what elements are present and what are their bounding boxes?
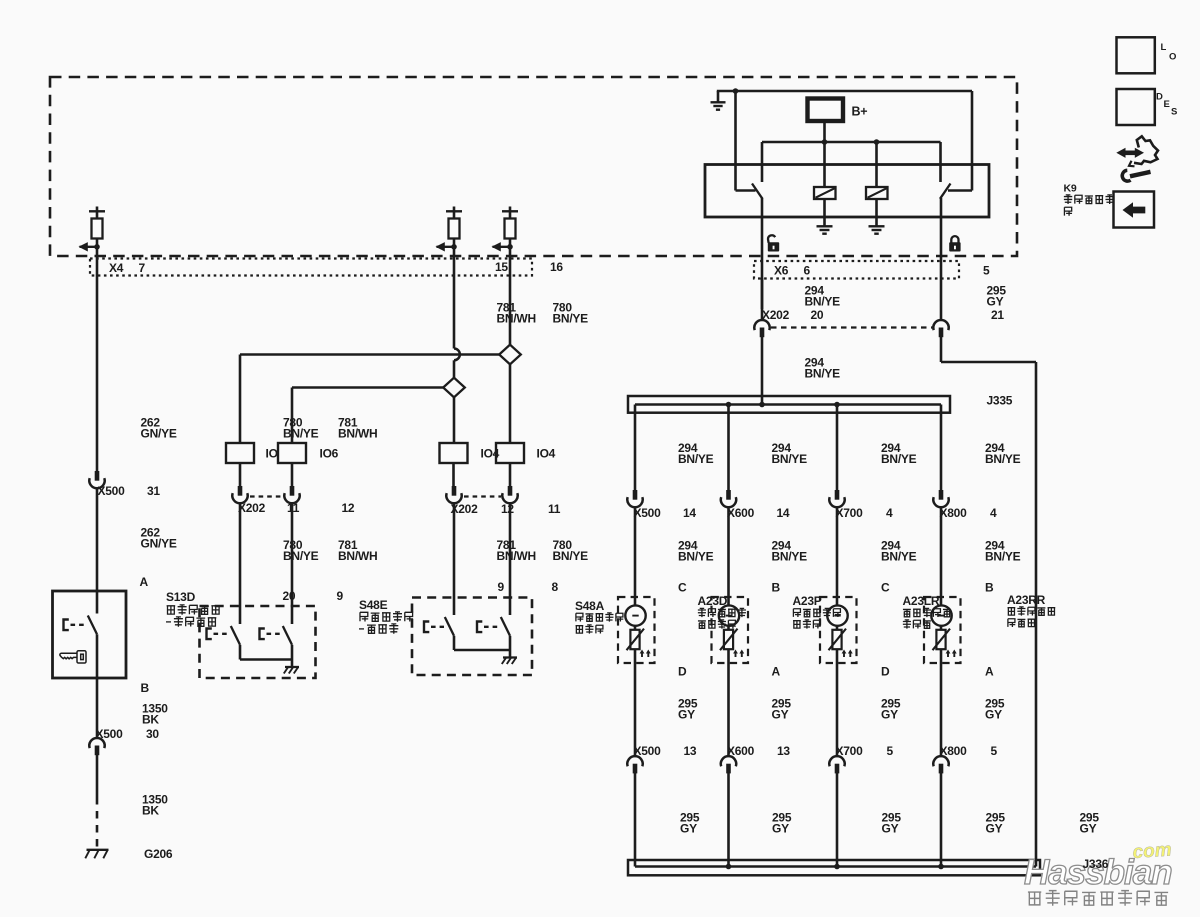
svg-text:BN/YE: BN/YE bbox=[881, 452, 917, 466]
switch blade right relay bbox=[940, 184, 951, 199]
wire 1350 BK lower bbox=[96, 755, 99, 797]
svg-text:BN/WH: BN/WH bbox=[497, 311, 536, 325]
label DES bbox=[1156, 92, 1177, 118]
svg-text:B: B bbox=[141, 681, 150, 695]
svg-text:GY: GY bbox=[680, 821, 697, 835]
wire key switch common bbox=[96, 634, 99, 738]
label K9 legend bbox=[1064, 183, 1114, 216]
svg-text:31: 31 bbox=[147, 484, 160, 498]
svg-text:E: E bbox=[1164, 99, 1170, 110]
wire 781 BN/WH to S48E bbox=[453, 503, 456, 615]
wire X6-6 to X202 bbox=[761, 278, 764, 321]
label terminal A bbox=[140, 575, 149, 589]
svg-text:GY: GY bbox=[986, 821, 1003, 835]
wire right switch common bbox=[940, 198, 943, 321]
svg-text:IO4: IO4 bbox=[537, 447, 556, 461]
svg-text:A23LR: A23LR bbox=[903, 594, 940, 608]
svg-text:7: 7 bbox=[139, 261, 146, 275]
switch blade S13D-1 bbox=[231, 626, 240, 645]
label X500 lower bbox=[634, 744, 697, 758]
wire IO1 to X202 bbox=[239, 463, 242, 487]
actuation bracket S48E-2 bbox=[477, 622, 499, 633]
label X500-30 bbox=[96, 727, 160, 741]
wire 294 BN/YE to J335 bbox=[761, 337, 764, 405]
wire crossover hop bbox=[454, 349, 460, 361]
label circuit 294 BN/YE col1 upper bbox=[678, 441, 714, 466]
wire relay feed bus bbox=[762, 141, 941, 144]
wire 294 BN/YE col2 lower bbox=[727, 507, 730, 606]
svg-text:IO: IO bbox=[266, 447, 278, 461]
node J335 tap 3 bbox=[834, 402, 840, 408]
connector X202-21 bbox=[933, 320, 948, 337]
connector X202-11 right bbox=[502, 486, 517, 503]
label X500 upper bbox=[634, 506, 697, 520]
wire 295 GY col4 bbox=[940, 707, 943, 867]
label A23RR bbox=[1007, 593, 1055, 627]
wire tap to IO box 2 bbox=[292, 388, 444, 444]
svg-text:9: 9 bbox=[337, 589, 344, 603]
connector X700-4 bbox=[829, 490, 844, 507]
label LO bbox=[1161, 42, 1177, 63]
legend box DES bbox=[1117, 89, 1155, 125]
label circuit 295 GY col3 upper bbox=[881, 697, 901, 722]
label X700 lower bbox=[836, 744, 894, 758]
switch blade S48E-1 bbox=[445, 617, 454, 636]
ground coil 1 bbox=[817, 199, 833, 234]
door lock actuator A23D motor bbox=[719, 605, 744, 657]
svg-text:11: 11 bbox=[287, 501, 300, 515]
wire S13D commons bbox=[240, 645, 292, 667]
wire 780 BN/YE to S48E bbox=[509, 503, 512, 615]
svg-text:GY: GY bbox=[881, 707, 898, 721]
label A23D bbox=[698, 594, 746, 629]
wire 294 BN/YE drop X800 bbox=[940, 405, 943, 491]
svg-text:GN/YE: GN/YE bbox=[141, 426, 177, 440]
svg-text:B+: B+ bbox=[852, 105, 868, 119]
svg-text:BN/YE: BN/YE bbox=[772, 549, 808, 563]
svg-text:BN/YE: BN/YE bbox=[985, 549, 1021, 563]
switch blade S13D-2 bbox=[283, 626, 292, 645]
wire X4-16 drop bbox=[509, 258, 512, 345]
label circuit 295 GY col4 upper bbox=[985, 697, 1005, 722]
svg-text:BN/YE: BN/YE bbox=[283, 549, 319, 563]
label pin 9 S13D bbox=[337, 589, 344, 603]
svg-text:A: A bbox=[140, 575, 149, 589]
label X202 left pair bbox=[238, 501, 355, 515]
svg-text:GY: GY bbox=[772, 707, 789, 721]
svg-text:BN/YE: BN/YE bbox=[805, 294, 841, 308]
label circuit 1350 BK upper bbox=[142, 702, 168, 727]
wire tap to IO box 1 bbox=[240, 355, 500, 444]
IO box 4 bbox=[496, 443, 556, 463]
label circuit 780 BN/YE mid right bbox=[553, 538, 589, 563]
ground (K9 internal, top-left) bbox=[711, 91, 726, 110]
ground S13D internal bbox=[284, 667, 299, 674]
svg-text:IO6: IO6 bbox=[320, 447, 339, 461]
svg-text:BN/YE: BN/YE bbox=[985, 452, 1021, 466]
svg-text:GY: GY bbox=[985, 707, 1002, 721]
connector X800-5 bbox=[933, 756, 948, 773]
wire 295 GY col3 bbox=[836, 707, 839, 867]
svg-text:16: 16 bbox=[550, 260, 563, 274]
label terminal B col4 bbox=[985, 581, 994, 595]
svg-text:X4: X4 bbox=[109, 261, 124, 275]
svg-text:GY: GY bbox=[1080, 821, 1097, 835]
label terminal C col3 bbox=[881, 581, 890, 595]
svg-text:D: D bbox=[881, 665, 890, 679]
svg-text:L: L bbox=[1161, 42, 1167, 53]
label B+ bbox=[852, 105, 868, 119]
label circuit 781 BN/WH top bbox=[497, 301, 536, 326]
wire IO3 to X202 bbox=[452, 463, 455, 487]
label circuit 295 GY col2 upper bbox=[772, 697, 792, 722]
svg-text:BN/YE: BN/YE bbox=[805, 366, 841, 380]
wire 262 GN/YE lower bbox=[96, 488, 99, 592]
label X202-20 bbox=[762, 308, 1004, 322]
battery feed B+ box bbox=[808, 99, 844, 122]
svg-text:D: D bbox=[678, 665, 687, 679]
label pin 20 bbox=[283, 589, 296, 603]
S13D door lock switch box bbox=[200, 606, 316, 678]
wire 294 BN/YE col1 lower bbox=[634, 507, 637, 606]
watermark Hassbian bbox=[1024, 853, 1172, 892]
splice diamond on wire 780 bbox=[499, 345, 521, 365]
svg-text:11: 11 bbox=[548, 502, 561, 516]
label circuit 294 BN/YE col1 lower bbox=[678, 539, 714, 564]
label circuit 1350 BK lower bbox=[142, 793, 168, 818]
svg-text:13: 13 bbox=[684, 744, 697, 758]
svg-text:K9: K9 bbox=[1064, 183, 1077, 195]
label circuit 780 BN/YE top bbox=[553, 301, 589, 326]
svg-text:21: 21 bbox=[991, 308, 1004, 322]
label circuit 294 BN/YE col3 lower bbox=[881, 539, 917, 564]
switch blade S48E-2 bbox=[501, 617, 510, 636]
label X202 right pair bbox=[451, 502, 561, 516]
connector X500-14 bbox=[627, 490, 642, 507]
svg-text:A: A bbox=[985, 665, 994, 679]
IO box 2 bbox=[278, 443, 339, 463]
label pin 9 S48E bbox=[498, 580, 505, 594]
K9 output pin X4-15 bbox=[436, 207, 463, 259]
svg-text:5: 5 bbox=[887, 744, 894, 758]
wire actuator A23LR internal bbox=[940, 626, 943, 707]
svg-text:B: B bbox=[985, 581, 994, 595]
svg-text:14: 14 bbox=[777, 506, 790, 520]
label A23P bbox=[793, 594, 841, 629]
wire 294 BN/YE drop X500 bbox=[634, 405, 637, 491]
label circuit 294 BN/YE col3 upper bbox=[881, 441, 917, 466]
svg-text:A23D: A23D bbox=[698, 594, 728, 608]
wire IO2 to X202 bbox=[291, 463, 294, 487]
svg-text:A23RR: A23RR bbox=[1007, 593, 1046, 607]
key lock cylinder switch box bbox=[53, 591, 127, 678]
wire 262 GN/YE upper bbox=[96, 258, 99, 472]
wire 780 BN/YE to S13D bbox=[239, 503, 242, 624]
label circuit 295 GY col4 lower bbox=[986, 811, 1006, 836]
label terminal C col1 bbox=[678, 581, 687, 595]
svg-text:X800: X800 bbox=[940, 506, 968, 520]
wire 294 BN/YE col3 lower bbox=[836, 507, 839, 606]
svg-text:X202: X202 bbox=[238, 501, 266, 515]
svg-text:BN/WH: BN/WH bbox=[338, 549, 377, 563]
door lock actuator A23LR box bbox=[924, 597, 961, 663]
wire S48E commons bbox=[454, 636, 510, 658]
wire actuator A23P internal bbox=[836, 626, 839, 707]
ground G206 bbox=[85, 850, 108, 859]
node J335 tap 2 bbox=[726, 402, 732, 408]
wire left switch common bbox=[761, 198, 764, 309]
svg-text:C: C bbox=[881, 581, 890, 595]
svg-text:BN/YE: BN/YE bbox=[881, 549, 917, 563]
label circuit 294 BN/YE col2 lower bbox=[772, 539, 808, 564]
relay box K9 internal bbox=[705, 165, 989, 218]
actuation bracket key switch bbox=[64, 620, 87, 631]
svg-text:GY: GY bbox=[678, 707, 695, 721]
wire B+ drop bbox=[823, 121, 826, 142]
actuation bracket S13D-1 bbox=[207, 629, 230, 640]
label terminal D col1 bbox=[678, 665, 687, 679]
relay coil 1 bbox=[814, 142, 836, 199]
K9 body control module boundary bbox=[50, 77, 1017, 256]
label circuit 295 GY col2 lower bbox=[772, 811, 792, 836]
label circuit 294 BN/YE upper bbox=[805, 284, 841, 309]
actuation bracket S48E-1 bbox=[424, 622, 444, 633]
node J335 feed bbox=[759, 402, 765, 408]
svg-text:S48A: S48A bbox=[575, 599, 605, 613]
label X800 upper bbox=[940, 506, 998, 520]
svg-text:12: 12 bbox=[342, 501, 355, 515]
svg-text:5: 5 bbox=[991, 744, 998, 758]
svg-text:J335: J335 bbox=[987, 394, 1013, 408]
S48E multifunction switch box bbox=[412, 598, 532, 676]
ground S48E internal bbox=[502, 658, 517, 665]
node B+ junction bbox=[822, 139, 828, 145]
icon open padlock bbox=[768, 235, 779, 251]
connector link X202 right bbox=[464, 495, 501, 497]
svg-text:X600: X600 bbox=[727, 506, 755, 520]
IO box 3 bbox=[440, 443, 500, 463]
wire 781 into IO4 box 2 bbox=[509, 364, 512, 443]
svg-text:GN/YE: GN/YE bbox=[141, 536, 177, 550]
label circuit 295 GY col3 lower bbox=[882, 811, 902, 836]
svg-text:8: 8 bbox=[552, 580, 559, 594]
watermark forum name bbox=[1028, 891, 1168, 906]
label circuit 294 BN/YE col2 upper bbox=[772, 441, 808, 466]
door lock actuator A23P motor bbox=[827, 605, 852, 657]
svg-text:A: A bbox=[772, 665, 781, 679]
connector link X202 K9 bbox=[771, 326, 932, 328]
label circuit 262 GN/YE lower bbox=[141, 526, 177, 551]
label circuit 295 GY col1 upper bbox=[678, 697, 698, 722]
label S48E bbox=[359, 598, 413, 634]
label circuit 295 GY upper bbox=[987, 284, 1007, 309]
wire key switch contact bbox=[96, 592, 99, 614]
label circuit 294 BN/YE mid bbox=[805, 356, 841, 381]
connector X800-4 bbox=[933, 490, 948, 507]
wire 781 BN/WH to S13D bbox=[291, 503, 294, 624]
svg-text:BN/YE: BN/YE bbox=[678, 452, 714, 466]
label terminal D col3 bbox=[881, 665, 890, 679]
door lock actuator A23LR motor bbox=[931, 605, 956, 657]
svg-text:BN/WH: BN/WH bbox=[497, 549, 536, 563]
svg-text:S: S bbox=[1171, 107, 1177, 118]
wire 295 GY col1 bbox=[634, 707, 637, 867]
svg-text:5: 5 bbox=[983, 264, 990, 278]
label terminal B bbox=[141, 681, 150, 695]
watermark com bbox=[1132, 839, 1173, 863]
door lock actuator A23P box bbox=[820, 597, 857, 663]
svg-text:S13D: S13D bbox=[166, 590, 196, 604]
splice diamond on wire 781 bbox=[443, 378, 465, 398]
label X500-31 bbox=[98, 484, 161, 498]
legend icon service arrows wrench bbox=[1116, 136, 1158, 181]
label X600 upper bbox=[727, 506, 790, 520]
connector X700-5 bbox=[829, 756, 844, 773]
svg-text:BN/YE: BN/YE bbox=[283, 426, 319, 440]
K9 output pin X4-7 bbox=[79, 207, 106, 259]
door lock actuator A23D box bbox=[712, 597, 749, 663]
node J336 tap 2 bbox=[726, 864, 732, 870]
svg-text:D: D bbox=[1156, 92, 1163, 103]
wire 294 BN/YE col4 lower bbox=[940, 507, 943, 606]
svg-text:S48E: S48E bbox=[359, 598, 388, 612]
label terminal B col2 bbox=[772, 581, 781, 595]
wire actuator S48A internal bbox=[634, 626, 637, 707]
svg-text:X700: X700 bbox=[836, 506, 864, 520]
wire 294 BN/YE drop X700 bbox=[836, 405, 839, 491]
svg-text:4: 4 bbox=[990, 506, 997, 520]
svg-text:G206: G206 bbox=[144, 847, 173, 861]
svg-text:BK: BK bbox=[142, 712, 159, 726]
door lock actuator S48A motor bbox=[625, 605, 650, 657]
svg-text:GY: GY bbox=[772, 821, 789, 835]
label X800 lower bbox=[940, 744, 998, 758]
splice pack J335 bbox=[628, 396, 950, 413]
IO box 1 bbox=[226, 443, 278, 463]
node junction left switch feed bbox=[733, 88, 739, 94]
node J336 tap 4 bbox=[938, 864, 944, 870]
label terminal A col2 bbox=[772, 665, 781, 679]
legend box LO bbox=[1117, 37, 1155, 73]
connector X500-31 bbox=[89, 471, 104, 488]
label X600 lower bbox=[727, 744, 790, 758]
switch blade key switch bbox=[88, 616, 97, 635]
svg-text:X500: X500 bbox=[98, 484, 126, 498]
wire top ground rail bbox=[717, 90, 972, 93]
svg-text:13: 13 bbox=[777, 744, 790, 758]
node coil K2 junction bbox=[874, 139, 880, 145]
svg-text:BN/YE: BN/YE bbox=[772, 452, 808, 466]
svg-text:A23P: A23P bbox=[793, 594, 822, 608]
node J336 tap 3 bbox=[834, 864, 840, 870]
wire to ground G206 dashed bbox=[96, 797, 99, 848]
wire 294 BN/YE drop X600 bbox=[727, 405, 730, 491]
label J335 bbox=[987, 394, 1013, 408]
svg-text:X6: X6 bbox=[774, 264, 789, 278]
svg-text:9: 9 bbox=[498, 580, 505, 594]
label circuit 781 BN/WH mid right bbox=[497, 538, 536, 563]
label X4 bbox=[109, 260, 563, 275]
label X700 upper bbox=[836, 506, 894, 520]
svg-text:4: 4 bbox=[886, 506, 893, 520]
label A23LR bbox=[903, 594, 951, 629]
label circuit 780 BN/YE left bbox=[283, 416, 319, 441]
icon key bbox=[60, 651, 86, 663]
svg-text:GY: GY bbox=[882, 821, 899, 835]
wire right contact stub bbox=[939, 142, 942, 182]
label circuit 294 BN/YE col4 lower bbox=[985, 539, 1021, 564]
label circuit 262 GN/YE upper bbox=[141, 416, 177, 441]
connector X202-12 right bbox=[446, 486, 461, 503]
svg-text:BK: BK bbox=[142, 803, 159, 817]
label circuit 294 BN/YE col4 upper bbox=[985, 441, 1021, 466]
label S13D bbox=[166, 590, 220, 627]
svg-text:6: 6 bbox=[804, 264, 811, 278]
svg-text:BN/YE: BN/YE bbox=[553, 549, 589, 563]
svg-text:C: C bbox=[678, 581, 687, 595]
svg-text:14: 14 bbox=[683, 506, 696, 520]
wire right switch ground leg bbox=[948, 91, 972, 191]
svg-text:GY: GY bbox=[987, 294, 1004, 308]
relay coil 2 bbox=[866, 142, 888, 199]
wire 295 GY right rail bbox=[941, 337, 1036, 867]
connector X4 row bbox=[90, 259, 532, 276]
svg-text:15: 15 bbox=[495, 260, 508, 274]
switch blade left relay bbox=[752, 184, 763, 199]
wire 295 GY col2 bbox=[727, 707, 730, 867]
label circuit 295 GY col1 lower bbox=[680, 811, 700, 836]
splice pack J336 bbox=[628, 860, 1040, 875]
ground coil 2 bbox=[869, 199, 885, 234]
wire left switch ground leg bbox=[736, 91, 756, 191]
label J336 bbox=[1083, 857, 1109, 871]
svg-text:B: B bbox=[772, 581, 781, 595]
connector X500-30 bbox=[89, 738, 104, 755]
svg-text:O: O bbox=[1169, 52, 1176, 63]
icon closed padlock bbox=[949, 236, 960, 251]
door lock actuator S48A box bbox=[618, 597, 655, 663]
label circuit 781 BN/WH left bbox=[338, 416, 377, 441]
label G206 bbox=[144, 847, 173, 861]
wire actuator A23D internal bbox=[727, 626, 730, 707]
connector X202-20 bbox=[754, 320, 769, 337]
svg-text:BN/YE: BN/YE bbox=[678, 549, 714, 563]
connector X500-13 bbox=[627, 756, 642, 773]
svg-text:BN/YE: BN/YE bbox=[553, 311, 589, 325]
legend box K9 arrow bbox=[1114, 192, 1155, 228]
svg-text:20: 20 bbox=[283, 589, 296, 603]
svg-text:J336: J336 bbox=[1083, 857, 1109, 871]
connector X6 row bbox=[754, 261, 959, 279]
connector X600-13 bbox=[721, 756, 736, 773]
connector X600-14 bbox=[721, 490, 736, 507]
connector X202-12 left bbox=[284, 486, 299, 503]
wire X4-15 drop bbox=[453, 258, 456, 378]
connector link X202 left bbox=[250, 495, 283, 497]
svg-text:12: 12 bbox=[501, 502, 514, 516]
wire 780 into IO4 box bbox=[453, 397, 456, 443]
label terminal A col4 bbox=[985, 665, 994, 679]
label circuit 295 GY right rail bbox=[1080, 811, 1100, 836]
K9 output pin X4-16 bbox=[492, 207, 519, 259]
connector X202-11 left bbox=[232, 486, 247, 503]
svg-text:20: 20 bbox=[811, 308, 824, 322]
label S48A bbox=[575, 599, 623, 634]
label pin 8 S48E bbox=[552, 580, 559, 594]
label circuit 780 BN/YE mid bbox=[283, 538, 319, 563]
svg-text:30: 30 bbox=[146, 727, 159, 741]
actuation bracket S13D-2 bbox=[260, 629, 283, 640]
